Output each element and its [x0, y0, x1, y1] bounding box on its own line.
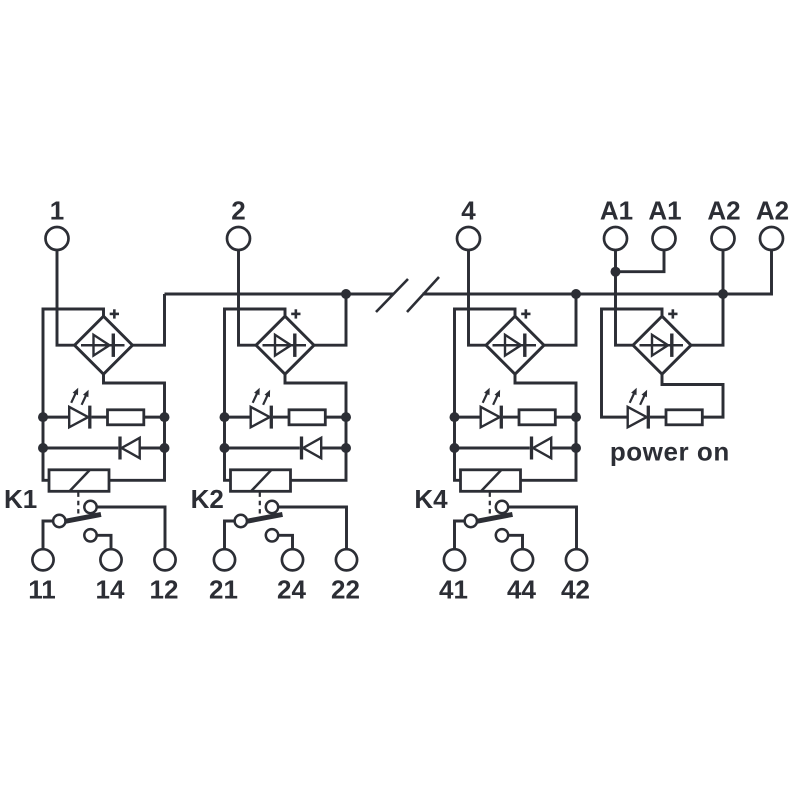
junction	[220, 443, 230, 453]
terminal 41	[439, 549, 468, 604]
junction	[160, 412, 170, 422]
wire channel top line and left rail (K1)	[43, 309, 104, 480]
junction	[571, 412, 581, 422]
svg-text:A2: A2	[756, 195, 789, 225]
freewheeling diode (K4)	[532, 437, 552, 460]
terminal 14	[96, 549, 125, 604]
contact arm (K1)	[65, 514, 102, 521]
contact fixed point to 44 (K4)	[496, 529, 508, 541]
svg-text:22: 22	[331, 574, 360, 604]
wire supply bus A2 (right part)	[423, 250, 772, 294]
wire LED row (K4)	[455, 416, 481, 419]
svg-text:1: 1	[50, 195, 64, 225]
junction	[341, 412, 351, 422]
mechanical link of relay K2 (dashed)	[259, 493, 261, 515]
relay coil K1	[49, 470, 109, 492]
contact fixed point to 22 (K2)	[266, 501, 278, 513]
LED (K4)	[481, 388, 502, 429]
terminal A1	[648, 195, 681, 250]
junction	[571, 443, 581, 453]
wire bridge DC output to right rail (K1)	[104, 373, 165, 480]
wire top line and left rail (power-on)	[602, 309, 663, 417]
wire terminal 4 to bridge AC input	[469, 250, 489, 345]
terminal 11	[28, 549, 56, 604]
wire contact to terminal 44	[508, 535, 522, 549]
mechanical link of relay K4 (dashed)	[489, 493, 491, 515]
relay coil K4	[461, 470, 521, 492]
bridge rectifier (power-on)	[633, 316, 691, 374]
terminal 21	[209, 549, 238, 604]
wire A1-A1 jumper	[616, 250, 665, 272]
wire LED row (K1)	[43, 416, 69, 419]
terminal 24	[277, 549, 306, 604]
wire contact to terminal 12	[97, 507, 165, 549]
wire diode row (K4)	[455, 447, 530, 450]
terminal 2	[227, 195, 250, 250]
wire bus to bridge AC input (K1)	[131, 294, 165, 345]
LED (K1)	[69, 388, 90, 429]
wire terminal 2 to bridge AC input	[239, 250, 259, 345]
polarity label + (K2)	[291, 309, 300, 318]
wire channel top line and left rail (K4)	[455, 309, 516, 480]
svg-text:24: 24	[277, 574, 306, 604]
break symbol (bus interruption)	[376, 277, 439, 312]
wire supply bus A2 (left part, with break)	[165, 293, 394, 296]
bridge rectifier (K4)	[486, 316, 544, 374]
junction	[38, 443, 48, 453]
junction	[220, 412, 230, 422]
LED (K2)	[251, 388, 272, 429]
terminal 22	[331, 549, 360, 604]
wire contact to terminal 24	[278, 535, 292, 549]
bridge rectifier (K1)	[75, 316, 133, 374]
contact fixed point to 42 (K4)	[496, 501, 508, 513]
wire bridge DC output to right rail (K4)	[515, 373, 576, 480]
wire terminal A1 down to power-on bridge	[616, 250, 634, 345]
terminal A2	[756, 195, 789, 250]
wire bridge DC output to resistor (power-on)	[662, 373, 723, 417]
mechanical link of relay K1 (dashed)	[77, 493, 79, 515]
contact common pivot (K1)	[53, 515, 65, 527]
svg-text:42: 42	[561, 574, 590, 604]
svg-text:A1: A1	[600, 195, 633, 225]
contact common pivot (K2)	[235, 515, 247, 527]
wire terminal 1 to bridge AC input	[57, 250, 77, 345]
wire terminal A2 to bus	[722, 250, 725, 294]
junction	[38, 412, 48, 422]
svg-text:41: 41	[439, 574, 468, 604]
svg-text:A2: A2	[707, 195, 740, 225]
junction bus / channel K2	[341, 289, 351, 299]
terminal 12	[150, 549, 179, 604]
LED (power-on)	[628, 388, 649, 429]
wire LED row (K2)	[225, 416, 251, 419]
wire bus to bridge AC input (power-on)	[689, 294, 723, 345]
wire contact to terminal 42	[508, 507, 576, 549]
resistor (power-on)	[666, 410, 702, 425]
junction bus / channel K4	[571, 289, 581, 299]
svg-text:14: 14	[96, 574, 125, 604]
freewheeling diode (K2)	[302, 437, 322, 460]
polarity label + (power-on)	[668, 309, 677, 318]
contact fixed point to 12 (K1)	[84, 501, 96, 513]
wire contact to terminal 14	[97, 535, 111, 549]
resistor (K1)	[108, 410, 144, 425]
terminal 42	[561, 549, 590, 604]
svg-text:A1: A1	[648, 195, 681, 225]
svg-text:44: 44	[507, 574, 536, 604]
wire contact to terminal 22	[278, 507, 346, 549]
terminal A1	[600, 195, 633, 250]
wire bus to bridge AC input (K2)	[312, 294, 346, 345]
svg-text:2: 2	[231, 195, 245, 225]
junction	[450, 443, 460, 453]
resistor (K2)	[289, 410, 325, 425]
wire diode row (K1)	[43, 447, 118, 450]
terminal A2	[707, 195, 740, 250]
junction A1	[611, 267, 621, 277]
polarity label + (K1)	[110, 309, 119, 318]
svg-text:power on: power on	[610, 436, 730, 466]
contact arm (K2)	[246, 514, 283, 521]
terminal 4	[457, 195, 480, 250]
svg-text:K2: K2	[191, 484, 224, 514]
junction bus / A2 terminal and power-on bridge	[718, 289, 728, 299]
wire pivot to terminal 21	[225, 521, 235, 549]
contact common pivot (K4)	[465, 515, 477, 527]
junction	[160, 443, 170, 453]
terminal 1	[46, 195, 69, 250]
junction	[341, 443, 351, 453]
contact fixed point to 14 (K1)	[84, 529, 96, 541]
wire channel top line and left rail (K2)	[225, 309, 286, 480]
freewheeling diode (K1)	[120, 437, 140, 460]
polarity label + (K4)	[521, 309, 530, 318]
wire bus to bridge AC input (K4)	[542, 294, 576, 345]
contact fixed point to 24 (K2)	[266, 529, 278, 541]
wire bridge DC output to right rail (K2)	[285, 373, 346, 480]
resistor (K4)	[519, 410, 555, 425]
svg-text:12: 12	[150, 574, 179, 604]
svg-text:21: 21	[209, 574, 238, 604]
relay coil K2	[231, 470, 291, 492]
svg-text:11: 11	[28, 574, 56, 604]
wire pivot to terminal 11	[43, 521, 53, 549]
wire pivot to terminal 41	[455, 521, 465, 549]
svg-text:4: 4	[461, 195, 476, 225]
wire LED to resistor (power-on)	[650, 416, 666, 419]
junction	[450, 412, 460, 422]
contact arm (K4)	[476, 514, 513, 521]
bridge rectifier (K2)	[256, 316, 314, 374]
svg-text:K4: K4	[414, 484, 448, 514]
svg-text:K1: K1	[4, 484, 37, 514]
wire diode row (K2)	[225, 447, 300, 450]
terminal 44	[507, 549, 536, 604]
